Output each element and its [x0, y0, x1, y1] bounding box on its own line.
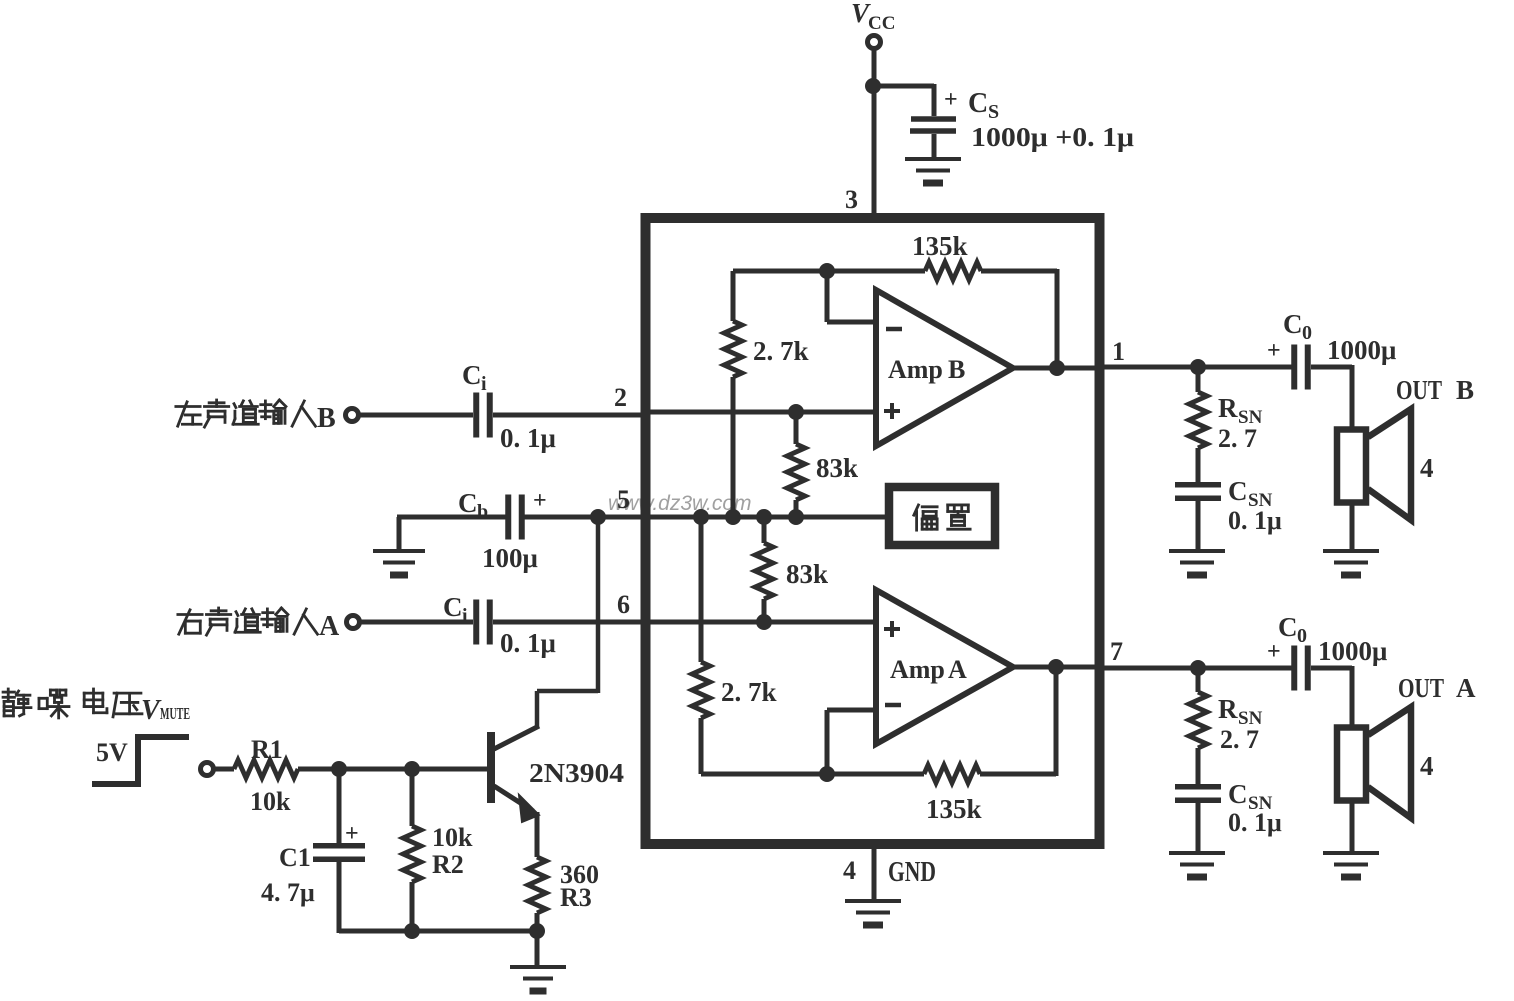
wire Ci to pin6 [493, 620, 650, 625]
svg-text:C: C [1228, 779, 1248, 809]
label left channel input B [176, 402, 201, 426]
svg-text:0. 1μ: 0. 1μ [500, 423, 556, 453]
capacitor C1 [313, 843, 365, 849]
resistor 83k (lower) leads [762, 517, 767, 543]
capacitor C0 (B) [1291, 345, 1297, 390]
label right channel input A [178, 610, 202, 634]
svg-text:83k: 83k [816, 453, 858, 483]
wire C0 to speaker A [1311, 666, 1352, 671]
wire non-inverting input line B (pin 2) [650, 410, 877, 415]
svg-text:1000μ: 1000μ [1327, 335, 1396, 365]
svg-text:i: i [481, 373, 487, 395]
svg-text:2: 2 [614, 383, 627, 412]
svg-text:+: + [1267, 639, 1281, 665]
ground Cb [373, 549, 425, 553]
svg-text:10k: 10k [250, 787, 291, 816]
svg-text:7: 7 [1110, 637, 1123, 666]
junction Vcc/Cs [865, 78, 881, 94]
wire feedback bottom line A [701, 772, 924, 777]
terminal input B [346, 409, 359, 422]
svg-text:3: 3 [845, 185, 858, 214]
svg-text:+: + [1267, 338, 1281, 364]
wire pin4 [872, 844, 877, 899]
label bias 偏置 [914, 505, 937, 530]
svg-text:OUT: OUT [1396, 375, 1442, 405]
capacitor Ci (A) [473, 600, 479, 645]
resistor R2 leads [410, 769, 415, 826]
speaker OUT B [1337, 430, 1366, 503]
wire speaker B gnd [1350, 505, 1355, 549]
svg-text:2. 7k: 2. 7k [753, 336, 809, 366]
op-amp Amp A [876, 590, 1013, 744]
svg-text:C: C [968, 88, 988, 119]
wire non-inverting input line A (pin 6) [650, 620, 877, 625]
svg-text:C: C [1278, 612, 1298, 642]
wire R1 to base [298, 767, 489, 772]
svg-text:1000μ +0. 1μ: 1000μ +0. 1μ [971, 122, 1134, 152]
junction bias/83k upper [788, 509, 804, 525]
svg-text:4: 4 [1420, 453, 1434, 483]
svg-text:135k: 135k [912, 231, 968, 261]
junction feedback/output A [1048, 659, 1064, 675]
terminal input A [347, 616, 360, 629]
capacitor Cb [505, 495, 511, 540]
svg-text:Amp: Amp [888, 355, 943, 384]
svg-text:A: A [1456, 673, 1476, 703]
svg-text:6: 6 [617, 590, 630, 619]
resistor 83k (upper) leads [794, 412, 799, 444]
svg-text:4: 4 [1420, 751, 1434, 781]
step waveform [92, 737, 189, 784]
bias box [889, 487, 995, 545]
svg-text:1000μ: 1000μ [1318, 636, 1387, 666]
capacitor C0 (A) [1291, 646, 1297, 691]
label plus B [884, 409, 900, 413]
resistor Rsn B [1189, 392, 1207, 448]
svg-text:0. 1μ: 0. 1μ [500, 628, 556, 658]
svg-text:+: + [944, 87, 958, 113]
ground mute [510, 965, 566, 969]
wire C0 to speaker B [1311, 365, 1352, 370]
svg-text:4. 7μ: 4. 7μ [261, 878, 315, 907]
ground below Cs [905, 157, 961, 161]
wire to Cs [873, 84, 934, 89]
wire input A to Ci [360, 620, 473, 625]
wire gnd to Cb [397, 517, 402, 549]
wire pin1 out [1099, 365, 1292, 370]
svg-text:100μ: 100μ [482, 543, 538, 573]
svg-text:A: A [948, 655, 967, 684]
capacitor Ci (B) [473, 393, 479, 438]
wire inverting input B [825, 271, 830, 322]
wire feedback right drop to output B [1055, 269, 1060, 368]
junction Rsn A [1190, 660, 1206, 676]
svg-text:2. 7: 2. 7 [1220, 725, 1259, 754]
svg-text:OUT: OUT [1398, 673, 1444, 703]
wire Cb to pin5 [524, 515, 650, 520]
svg-text:CC: CC [868, 13, 895, 34]
wire amp A output [1010, 665, 1099, 670]
svg-text:R: R [1218, 393, 1238, 423]
resistor Rsn A leads [1196, 668, 1201, 692]
resistor Rsn A [1189, 692, 1207, 748]
junction feedback A [819, 766, 835, 782]
op-amp Amp B [876, 290, 1013, 446]
svg-text:S: S [988, 101, 999, 123]
junction Rsn B [1190, 359, 1206, 375]
svg-text:83k: 83k [786, 559, 828, 589]
resistor 2.7k (A) leads [699, 517, 704, 662]
junction bias/83k lower [756, 509, 772, 525]
svg-text:GND: GND [888, 857, 936, 888]
svg-text:0: 0 [1302, 322, 1312, 344]
svg-text:C: C [1228, 476, 1248, 506]
svg-text:4: 4 [843, 856, 856, 885]
svg-text:0: 0 [1297, 625, 1307, 647]
svg-text:+: + [345, 821, 359, 847]
wire Vcc down to pin 3 [872, 49, 877, 216]
wire emitter down [535, 812, 540, 857]
resistor R2 [403, 826, 421, 882]
svg-text:R2: R2 [432, 850, 464, 879]
svg-text:C: C [1283, 309, 1303, 339]
resistor 83k (lower) [755, 543, 773, 599]
svg-text:b: b [477, 501, 488, 523]
junction Cb/mute [590, 509, 606, 525]
resistor Rsn B leads [1196, 367, 1201, 392]
svg-text:V: V [141, 695, 162, 726]
wire feedback right rise to output A [1054, 667, 1059, 776]
wire Csn A gnd [1196, 800, 1201, 851]
label plus A [884, 627, 900, 631]
capacitor Csn B [1175, 482, 1221, 488]
svg-text:5V: 5V [96, 738, 128, 767]
svg-text:2. 7: 2. 7 [1218, 424, 1257, 453]
ground Csn A [1169, 851, 1225, 855]
capacitor Cs polarized plates [911, 116, 956, 122]
svg-text:5: 5 [617, 485, 630, 514]
capacitor C1 leads [337, 769, 342, 843]
ground Csn B [1169, 549, 1225, 553]
junction feedback/output B [1049, 360, 1065, 376]
capacitor Csn A [1175, 784, 1221, 790]
IC package box [646, 218, 1100, 844]
wire input B to Ci [359, 413, 473, 418]
svg-text:B: B [317, 403, 336, 434]
wire R3 to gnd rail [535, 913, 540, 933]
wire amp B output [1010, 366, 1099, 371]
label mute voltage [3, 689, 31, 716]
resistor 135k (B) [925, 262, 981, 280]
svg-text:0. 1μ: 0. 1μ [1228, 506, 1282, 535]
wire to R1 [214, 767, 234, 772]
junction 83k lower bottom [756, 614, 772, 630]
wire pin7 out [1099, 666, 1292, 671]
wire bias line [650, 515, 886, 520]
svg-text:1: 1 [1112, 337, 1125, 366]
resistor R1 [234, 760, 298, 778]
svg-text:135k: 135k [926, 794, 982, 824]
svg-text:MUTE: MUTE [160, 704, 190, 723]
junction bias/2.7kA [693, 509, 709, 525]
junction on feedback line B [819, 263, 835, 279]
wire inverting input A [827, 708, 877, 713]
wire Ci to pin2 [493, 413, 650, 418]
svg-text:Amp: Amp [890, 655, 945, 684]
svg-text:C: C [462, 360, 482, 390]
speaker OUT A [1337, 728, 1366, 801]
svg-text:R1: R1 [251, 735, 283, 764]
svg-text:0. 1μ: 0. 1μ [1228, 808, 1282, 837]
resistor 135k (A) [924, 765, 980, 783]
svg-text:C: C [458, 488, 478, 518]
svg-text:2. 7k: 2. 7k [721, 677, 777, 707]
resistor 2.7k (B) [724, 321, 742, 377]
wire mute ground rail [339, 929, 537, 934]
transistor Q1 2N3904 [487, 732, 495, 803]
resistor 2.7k (B) leads [731, 271, 736, 321]
svg-text:A: A [319, 611, 340, 642]
terminal Vmute [201, 763, 214, 776]
junction 83k top [788, 404, 804, 420]
terminal Vcc [868, 36, 881, 49]
wire to ground [535, 931, 540, 966]
svg-text:B: B [948, 355, 965, 384]
svg-text:C1: C1 [279, 843, 311, 872]
resistor 2.7k (A) [692, 662, 710, 718]
junction rail R2 [404, 923, 420, 939]
svg-text:+: + [533, 488, 547, 514]
ground speaker B [1323, 549, 1379, 553]
wire feedback top line B [733, 269, 925, 274]
junction rail R3 [529, 923, 545, 939]
resistor 83k (upper) [787, 444, 805, 500]
svg-text:R3: R3 [560, 883, 592, 912]
svg-text:R: R [1218, 694, 1238, 724]
svg-text:C: C [443, 592, 463, 622]
junction R2 [404, 761, 420, 777]
label minus A [885, 703, 901, 708]
svg-text:B: B [1456, 375, 1474, 405]
svg-text:i: i [462, 605, 468, 627]
wire speaker A gnd [1350, 803, 1355, 851]
ground pin4 [845, 899, 901, 903]
resistor R3 [528, 857, 546, 913]
wire Csn B gnd [1196, 498, 1201, 549]
svg-text:10k: 10k [432, 823, 473, 852]
ground speaker A [1323, 851, 1379, 855]
label minus B [886, 327, 902, 332]
junction bias/2.7kB [725, 509, 741, 525]
junction C1 [331, 761, 347, 777]
svg-text:2N3904: 2N3904 [529, 758, 624, 788]
